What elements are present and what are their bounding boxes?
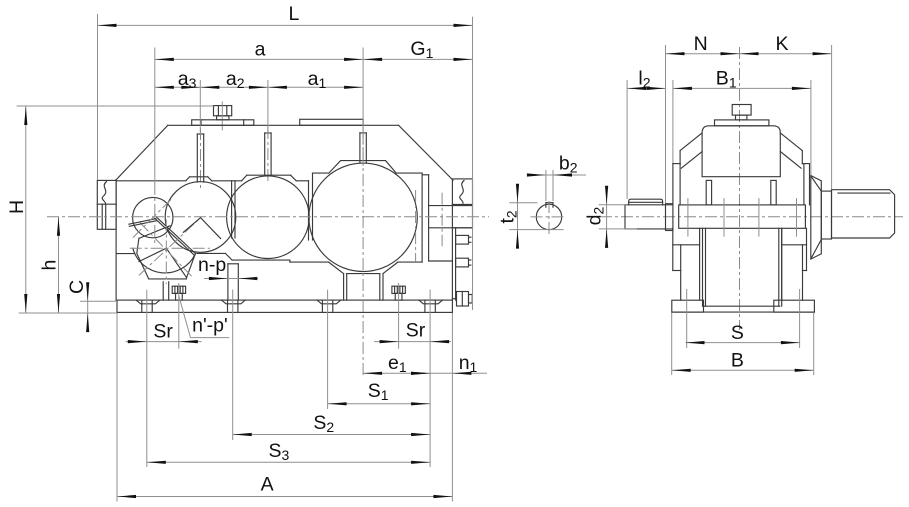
base corner bolt	[452, 292, 472, 307]
dim B line	[672, 369, 814, 372]
bearing cap over gear 4	[329, 161, 396, 174]
dim Sr right label	[406, 320, 426, 342]
svg-text:L: L	[289, 3, 300, 25]
output boss step	[422, 175, 429, 261]
bevel gear arc	[133, 248, 195, 273]
dim C ext	[80, 300, 117, 302]
end pedestal right top	[782, 228, 807, 270]
dim l2 ext	[626, 80, 628, 199]
output boss left edge	[421, 173, 423, 262]
gear circle 4	[309, 163, 417, 271]
end upper box	[702, 126, 780, 177]
dim d2 line	[605, 186, 608, 248]
end bearing bar	[679, 205, 806, 228]
main centerline	[47, 216, 489, 218]
wall bolt 1	[456, 235, 471, 244]
dim K ext	[831, 45, 833, 189]
dim N label	[694, 33, 708, 55]
bevel v centerline	[165, 220, 167, 285]
dim S2 label	[313, 412, 334, 435]
foot pad 3	[317, 300, 341, 312]
dim d2 ext	[599, 205, 637, 229]
svg-text:S: S	[731, 322, 744, 344]
dim A label	[261, 474, 274, 496]
step under gear 4	[347, 273, 380, 275]
step over gears 1-2	[116, 180, 186, 182]
dim S3 line	[147, 461, 430, 464]
dim K label	[776, 33, 789, 55]
housing top line	[168, 124, 399, 126]
input housing inner lines	[102, 204, 106, 229]
dim a label	[255, 39, 266, 61]
dim S2 line	[233, 433, 430, 436]
dim S3 label	[269, 440, 290, 463]
gear circle 2	[165, 182, 236, 253]
end output shoulder	[821, 191, 831, 239]
end flange top slope	[812, 177, 822, 191]
oil pin over gear 2	[197, 128, 203, 189]
dim B1 line	[673, 87, 811, 90]
dim a2 label	[226, 68, 245, 91]
step under gear 3b	[290, 260, 329, 262]
end output keyseat	[838, 192, 890, 194]
step right of cap 3	[296, 180, 308, 182]
dim B ext right	[813, 313, 815, 375]
dim a line	[155, 58, 363, 61]
bar bolt line 1	[687, 198, 689, 237]
chamfer 3	[329, 262, 344, 274]
end view h centerline	[600, 216, 903, 218]
bevel mesh double line	[155, 217, 196, 255]
dim L ext right	[472, 17, 474, 310]
svg-text:C: C	[66, 280, 88, 294]
bevel h centerline	[130, 247, 210, 249]
oil pin over gear 3	[265, 127, 271, 183]
keyway slot	[546, 203, 553, 208]
dim S1 line	[328, 402, 431, 405]
end pedestal right	[782, 228, 803, 300]
dim S line	[686, 341, 800, 344]
end view v centerline	[739, 47, 741, 330]
dim l2 line	[627, 87, 665, 90]
dim B1 ext right	[810, 80, 812, 175]
dim N ext	[665, 45, 667, 203]
dim Sr left line	[126, 340, 202, 343]
end input key	[629, 199, 663, 205]
dim l2 label	[638, 68, 650, 91]
dim A ext left	[116, 313, 118, 502]
bevel face line 1	[166, 248, 186, 277]
svg-text:a: a	[255, 39, 266, 61]
dim H label	[6, 200, 28, 214]
gear1 face double line	[129, 219, 156, 227]
housing left wall	[115, 180, 117, 300]
n-p bolt pocket	[228, 264, 238, 300]
foot pad 1	[136, 300, 160, 312]
drain plug left centerline	[178, 283, 180, 349]
dim C label	[66, 280, 88, 294]
dim a1 label	[308, 68, 327, 91]
end input shoulder	[666, 204, 673, 231]
dim A line	[117, 495, 452, 498]
dim S1 label	[368, 380, 389, 403]
end vent neck	[736, 115, 747, 120]
dim h line	[57, 217, 60, 313]
output boss bottom	[429, 260, 453, 262]
dim d2 label	[584, 206, 607, 225]
dim B label	[731, 350, 744, 372]
dim t2 ext bottom	[509, 229, 563, 231]
dim G1 line	[363, 58, 472, 61]
cap over gear 2	[186, 177, 212, 181]
dim e1 label	[388, 352, 407, 375]
end sump bottom	[704, 305, 780, 307]
step right of cap4	[396, 172, 422, 174]
end ear left	[706, 180, 711, 205]
gear1 axis diag	[133, 198, 173, 238]
dim e1 line	[363, 372, 430, 375]
key section v centerline	[548, 201, 550, 237]
pedestal under gear 4 right	[380, 274, 383, 301]
dim S label	[731, 322, 744, 344]
bevel axis diag 2	[139, 219, 199, 275]
dim C line	[86, 282, 89, 332]
step between caps 2-3	[212, 180, 242, 182]
output shaft housing	[452, 179, 472, 228]
bevel axis diag 1	[140, 223, 192, 277]
dim a3a2a1 line	[155, 86, 363, 89]
dim a1 ext	[362, 48, 364, 378]
chamfer 2	[225, 253, 232, 260]
svg-text:H: H	[6, 200, 28, 214]
drain plug left	[172, 286, 185, 300]
output shaft bottom	[429, 227, 473, 229]
step left of bevel	[116, 253, 135, 255]
dim b2 label	[559, 153, 578, 176]
gear2 cone line 2	[201, 218, 221, 239]
bar bolt line 2	[723, 198, 725, 237]
housing left slope	[116, 125, 168, 180]
end wing right	[780, 133, 802, 168]
end column right	[802, 164, 809, 205]
dim B1 ext left	[672, 80, 674, 163]
vent cap	[214, 106, 232, 116]
key section h centerline	[531, 216, 567, 218]
dim t2 ext top	[509, 202, 537, 204]
dim t2 line	[516, 184, 519, 249]
bolt centerline 4	[429, 290, 431, 468]
bevel hexagon	[137, 226, 195, 279]
n-p label	[198, 254, 226, 276]
output bearing centerline b	[441, 193, 443, 247]
svg-text:h: h	[39, 260, 61, 271]
svg-text:Sr: Sr	[153, 321, 173, 343]
dim A ext right	[451, 313, 453, 502]
end pedestal left top	[673, 228, 700, 270]
step left of cap4	[313, 172, 329, 174]
end bolt centerline left	[686, 289, 688, 348]
wall bolt 2	[456, 258, 471, 267]
dim a3 label	[178, 68, 197, 91]
step right of gear 4	[398, 261, 422, 263]
gear circle 1	[133, 197, 173, 237]
dim t2 label	[497, 210, 520, 223]
cover plate 2	[300, 119, 363, 125]
dim L line	[98, 24, 473, 27]
end foot right	[774, 300, 815, 312]
n-p dim line	[204, 277, 258, 280]
oil pin over gear 4	[360, 127, 366, 170]
dim H ext bottom	[19, 312, 117, 314]
end box walls	[703, 228, 782, 306]
dim b2 line	[527, 173, 586, 176]
svg-text:A: A	[261, 474, 274, 496]
step under gear 3	[232, 259, 290, 261]
rib between gear2-3	[232, 181, 235, 238]
vent neck	[217, 116, 229, 120]
dim H ext top	[17, 105, 214, 107]
bar bolt line 3	[758, 198, 760, 237]
foot pad 4	[419, 300, 443, 312]
drain plug right	[392, 286, 405, 300]
bolt centerline 3	[327, 290, 329, 409]
vent center line	[221, 102, 223, 131]
rib between gear3-4	[309, 173, 313, 240]
bevel face line 2	[139, 248, 166, 261]
dim h label	[39, 260, 61, 271]
dim B1 label	[716, 68, 737, 91]
pedestal under gear 4 left	[344, 274, 347, 301]
gear2 cone line 1	[183, 218, 200, 233]
dim a2 ext	[267, 80, 269, 132]
dim L ext left	[97, 14, 99, 180]
dim B ext left	[671, 313, 673, 375]
svg-text:Sr: Sr	[406, 320, 426, 342]
svg-text:N: N	[694, 33, 708, 55]
end wing left	[680, 133, 702, 168]
dim b2 ext	[546, 170, 553, 201]
dim G1 label	[410, 38, 433, 61]
key section circle	[536, 204, 561, 229]
dim H line	[24, 106, 27, 313]
end output flange	[811, 176, 822, 260]
svg-text:B: B	[731, 350, 744, 372]
housing right wall inner	[455, 228, 457, 300]
end column left	[673, 164, 680, 205]
dim Sr right line	[374, 340, 451, 343]
chamfer 4	[383, 262, 398, 274]
end cover plate	[715, 120, 769, 126]
dim K line	[740, 52, 832, 55]
end input shaft	[625, 205, 673, 229]
end base bottom	[672, 311, 815, 313]
svg-text:n'-p': n'-p'	[192, 314, 228, 336]
step under gear 2	[197, 252, 225, 254]
output bearing centerline a	[415, 190, 417, 262]
housing right slope	[399, 125, 453, 180]
bevel pedestal	[163, 282, 169, 300]
bar bolt line 4	[796, 198, 798, 237]
end pedestal left	[681, 228, 700, 300]
end bolt centerline right	[799, 289, 801, 348]
gear circle 3	[227, 176, 310, 259]
output shaft top	[429, 205, 473, 207]
input shaft housing	[97, 180, 116, 229]
bolt centerline 1	[146, 290, 148, 467]
foot pad 2	[222, 300, 246, 312]
dim a3 ext	[199, 80, 201, 133]
end flange bottom slope	[812, 240, 822, 258]
base plate	[117, 300, 452, 312]
cap over gear 3	[242, 175, 297, 181]
dim Sr left label	[153, 321, 173, 343]
svg-text:K: K	[776, 33, 789, 55]
end foot left	[672, 300, 704, 312]
dim n1 label	[459, 352, 478, 375]
drain plug right centerline	[398, 283, 400, 349]
input break squiggle	[102, 182, 106, 204]
cover plate 1	[192, 120, 254, 126]
bolt centerline 2	[232, 290, 234, 441]
end vent cap	[732, 105, 751, 116]
output break squiggle	[460, 181, 464, 204]
housing right wall outer	[451, 228, 453, 300]
dim N line	[666, 52, 740, 55]
dim n1 line	[411, 372, 487, 375]
dim a ext	[154, 48, 156, 244]
n'-p' leader	[179, 297, 229, 338]
n'-p' label	[192, 314, 228, 336]
end ear right	[771, 180, 776, 205]
end output shaft	[832, 190, 895, 238]
dim L label	[289, 3, 300, 25]
svg-text:n-p: n-p	[198, 254, 226, 276]
